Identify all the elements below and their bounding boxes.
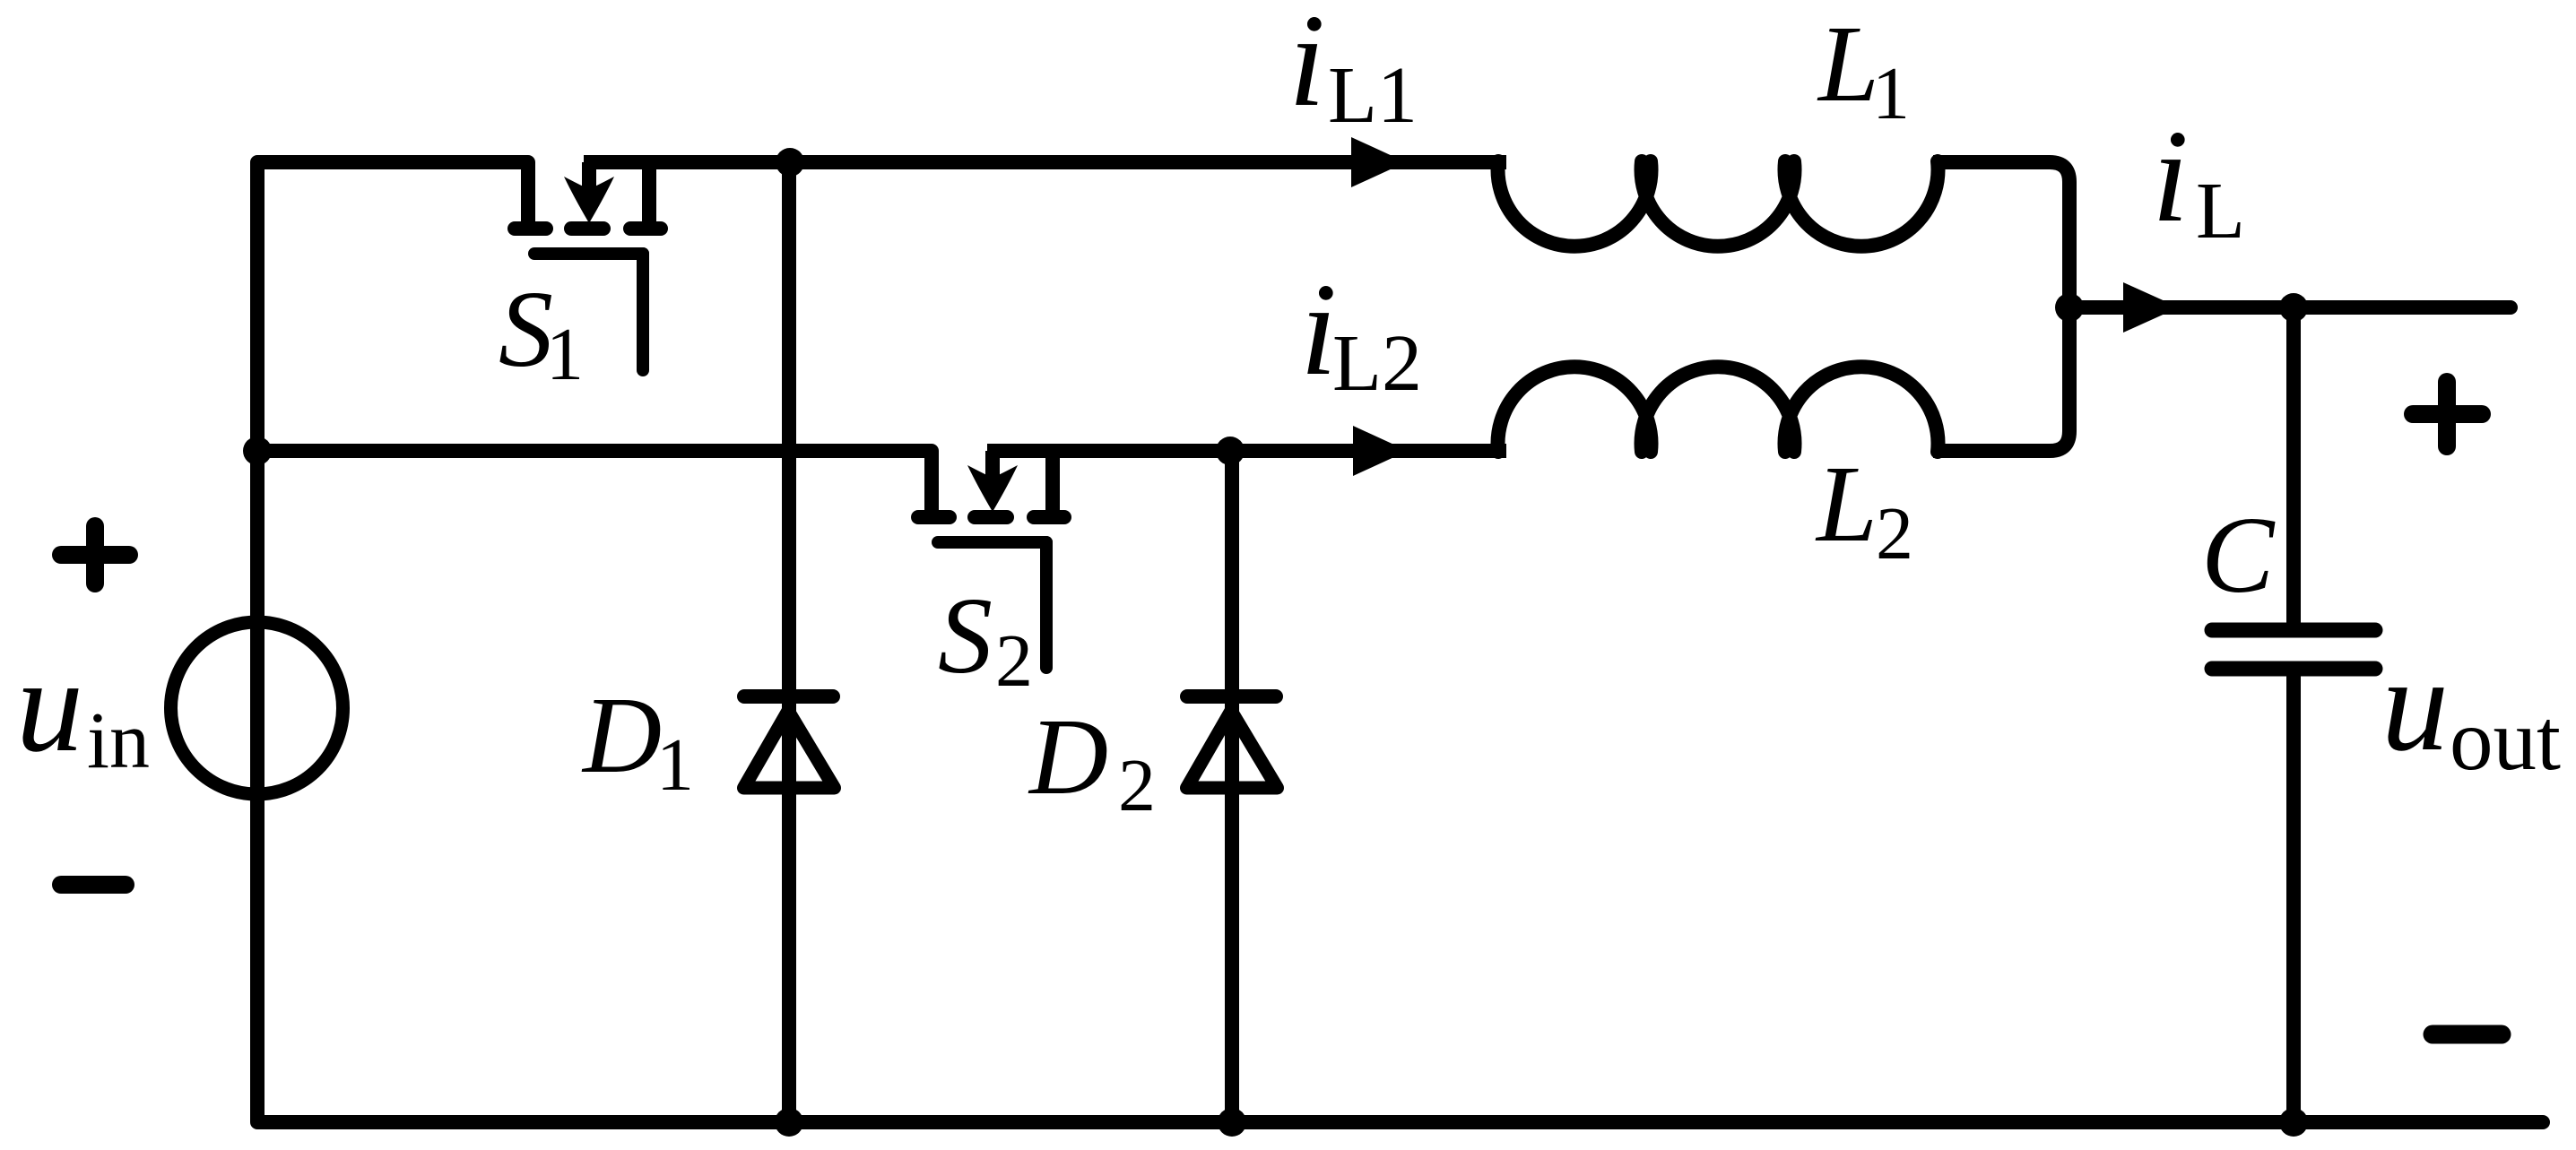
svg-text:D: D [581, 675, 662, 796]
svg-text:2: 2 [995, 619, 1033, 703]
svg-text:L1: L1 [1328, 51, 1418, 140]
diode D2 [1187, 696, 1278, 788]
current arrow iL2 on middle rail [1353, 426, 1408, 476]
S2 channel bar body [975, 510, 1007, 524]
svg-text:1: 1 [1872, 52, 1910, 135]
svg-text:2: 2 [1118, 744, 1156, 827]
D2 cathode bar [1187, 689, 1276, 704]
svg-text:in: in [87, 696, 150, 785]
minus sign of output u_out [2433, 1025, 2502, 1044]
svg-text:i: i [2152, 103, 2189, 250]
svg-text:u: u [16, 631, 83, 780]
diode D1 [744, 696, 835, 788]
node junction D2 / bottom rail [1218, 1108, 1246, 1137]
svg-text:D: D [1028, 696, 1108, 817]
node junction capacitor C / bottom rail [2279, 1108, 2308, 1137]
current arrow iL on output wire [2123, 282, 2179, 333]
minus sign of source u_in [61, 876, 126, 894]
wire middle rail from S2 drain to L2 (node B) [987, 444, 1506, 458]
S1 channel bar source [515, 221, 546, 236]
S1 arrowhead [564, 177, 614, 223]
svg-text:i: i [1288, 0, 1325, 134]
svg-text:1: 1 [546, 313, 584, 396]
inductor L1 [1498, 161, 1939, 246]
node A junction S1 drain / D1 / L1 [776, 148, 804, 177]
S2 gate lead [1040, 542, 1053, 668]
S2 drain stub [1045, 451, 1060, 517]
node junction D1 / bottom rail [775, 1108, 803, 1137]
node input junction left rail / middle rail [243, 437, 272, 465]
S2 channel bar source [918, 510, 950, 524]
plus sign of source u_in [61, 526, 129, 584]
svg-text:u: u [2381, 630, 2449, 779]
wire from L1 and L2 joining at node C [1933, 162, 2069, 451]
svg-text:S: S [938, 575, 993, 696]
wire middle rail from input node to S2 source (with S2 source stub) [257, 451, 932, 517]
svg-text:2: 2 [1876, 492, 1913, 575]
svg-text:L: L [1817, 4, 1879, 125]
D1 anode triangle [744, 711, 835, 788]
S2 arrowhead [967, 465, 1018, 512]
S2 channel bar drain [1034, 510, 1064, 524]
S1 channel bar drain [630, 221, 661, 236]
wire D1 branch from node A to bottom rail [782, 162, 796, 1122]
svg-text:C: C [2201, 495, 2276, 616]
plus sign of output u_out [2413, 382, 2482, 446]
S1 gate lead [637, 254, 649, 370]
svg-text:L2: L2 [1332, 319, 1422, 408]
wire capacitor C bottom lead [2286, 674, 2301, 1122]
D2 anode triangle [1187, 711, 1278, 788]
svg-text:L: L [1815, 444, 1878, 565]
S1 channel bar body [571, 221, 603, 236]
svg-text:S: S [499, 269, 553, 390]
current arrow iL1 on top rail [1351, 137, 1406, 187]
S1 arrow shaft [582, 162, 596, 190]
wire capacitor C top lead [2286, 307, 2301, 625]
S2 arrow shaft [985, 451, 1000, 479]
node junction output / capacitor C top [2279, 293, 2308, 322]
capacitor C plates [2212, 630, 2375, 669]
svg-text:out: out [2450, 692, 2561, 788]
wire top rail from S1 drain to L1 (node A) [584, 155, 1506, 169]
wire output from node C to right edge [2069, 300, 2511, 315]
node C junction L1 / L2 / output [2055, 293, 2084, 322]
svg-text:L: L [2196, 167, 2245, 255]
S1 gate bar [534, 247, 643, 260]
node B junction S2 drain / D2 / L2 [1216, 437, 1245, 465]
svg-text:1: 1 [656, 723, 694, 807]
voltage source u_in circle [171, 622, 343, 794]
inductor L2 [1498, 367, 1939, 452]
transistor S2 [918, 451, 1064, 668]
transistor S1 [515, 162, 661, 370]
wire left input rail, bottom return rail and S1 source stub [257, 162, 2543, 1122]
D1 cathode bar [744, 689, 833, 704]
S1 drain stub [642, 162, 656, 229]
wire D2 branch from node B to bottom rail [1225, 451, 1239, 1122]
S2 gate bar [938, 536, 1046, 549]
svg-text:i: i [1300, 256, 1337, 403]
